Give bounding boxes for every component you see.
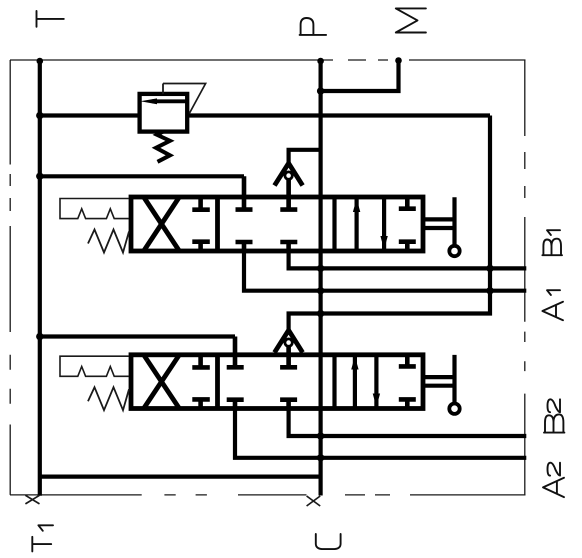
wire: A2 work line — [235, 409, 526, 458]
valve V2 box2 blocked ports and stubs — [227, 337, 297, 409]
valve V2 box1 crossed arrows — [144, 355, 179, 408]
label B2 : B — [544, 414, 564, 432]
relief valve flow arrow — [152, 99, 187, 103]
valve V1 box3 blocked ports — [399, 197, 416, 251]
valve V2 body (3-position spool valve) — [131, 355, 423, 409]
wire: M port line — [321, 60, 399, 91]
wire: riser down right side — [289, 116, 490, 332]
valve V2 box1 blocked ports — [192, 355, 210, 409]
wire: relief line right to riser — [189, 113, 491, 117]
label A2 : A — [543, 478, 564, 497]
enclosure border right (dash-dot) — [524, 60, 526, 495]
wire: P line vertical — [319, 60, 323, 496]
valve V1 return spring — [88, 230, 129, 253]
wire: B1 work line — [289, 251, 527, 268]
label A2 : 2 — [548, 463, 561, 476]
relief valve body — [140, 94, 188, 132]
valve V1 box1 crossed arrows — [144, 198, 179, 251]
valve V2 box divider 1 — [215, 355, 220, 409]
label A1 : 1 — [547, 290, 560, 295]
label B1 : B — [542, 239, 562, 256]
valve V1 box1 blocked ports — [192, 197, 210, 251]
check valve C2 — [275, 330, 303, 352]
enclosure border left (dash-dot) — [9, 60, 11, 495]
wire: tank gallery to V1 — [40, 174, 244, 178]
valve V1 box3 flow paths — [335, 197, 385, 251]
wire: check valve 1 to P — [289, 150, 321, 165]
valve V1 body (3-position spool valve) — [131, 197, 423, 251]
valve V1 lever actuator — [423, 197, 455, 245]
valve V1 box3 arrowheads — [353, 199, 360, 213]
enclosure border bottom (dash-dot) — [10, 494, 526, 496]
wire: relief line left — [40, 113, 140, 117]
relief valve adjustment flag — [163, 84, 206, 114]
wire: A1 work line — [244, 251, 526, 291]
label B1 : 1 — [547, 230, 560, 235]
valve V2 detent — [60, 356, 129, 376]
relief valve pilot stub — [162, 84, 164, 95]
valve V2 return spring — [88, 387, 129, 410]
wire: tank gallery to V2 — [40, 334, 235, 338]
valve V2 box3 arrowheads — [351, 356, 358, 369]
plugged port mark x at C — [307, 496, 321, 506]
plugged port mark x at T1 — [25, 495, 39, 504]
label T1 : 1 — [38, 525, 53, 531]
label C : C — [316, 534, 341, 549]
valve V2 lever actuator — [423, 355, 455, 403]
check valve C1 — [275, 163, 303, 185]
label T1 : T — [32, 537, 51, 552]
valve V2 box3 blocked ports — [399, 355, 416, 409]
valve V1 box2 blocked ports and stubs — [236, 176, 298, 251]
label A1 : A — [542, 302, 563, 321]
relief valve spring — [156, 132, 170, 162]
wire: T line vertical — [38, 60, 42, 496]
label M : M — [396, 8, 426, 32]
wire: T1 return line — [40, 475, 321, 479]
valve V1 box divider 1 — [215, 197, 220, 251]
valve V1 detent — [60, 199, 129, 219]
valve V2 box3 flow paths — [335, 355, 377, 409]
enclosure border top (dash-dot) — [10, 59, 526, 61]
label T : T — [37, 11, 64, 27]
label B2 : 2 — [548, 399, 561, 412]
label P : P — [300, 18, 327, 35]
wire: B2 work line — [289, 409, 527, 437]
